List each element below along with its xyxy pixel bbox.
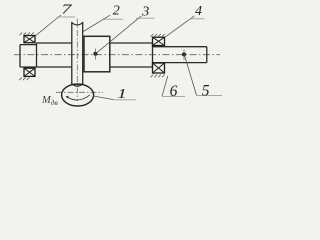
svg-text:1: 1 xyxy=(117,86,126,102)
output shaft end (right, element 5 area) xyxy=(153,47,207,63)
gear block (element 3) xyxy=(84,36,110,72)
shaft journal under left bearing xyxy=(20,45,37,67)
left bearing bottom box xyxy=(24,68,35,76)
left bearing bottom box X xyxy=(24,68,35,76)
leader line of label 2 xyxy=(83,15,110,31)
force application dot on output shaft xyxy=(182,52,186,56)
torque arrowhead xyxy=(66,96,69,99)
shaft section between gear and right bearing xyxy=(110,43,153,67)
right bearing lower support hatching xyxy=(151,75,165,78)
svg-text:4: 4 xyxy=(195,4,202,19)
label shelf under 1 xyxy=(114,99,137,101)
right bearing upper support hatching xyxy=(151,34,165,37)
horizontal centerline of wheel ellipse xyxy=(56,91,103,93)
label shelf under 2 xyxy=(104,18,123,20)
svg-text:7: 7 xyxy=(61,1,73,17)
left bearing (element 7) top box xyxy=(24,36,35,43)
leader line of label 5 xyxy=(185,55,197,95)
torque arrow arc inside wheel xyxy=(66,95,90,100)
right bearing (element 4) top box xyxy=(153,37,165,45)
leader line of label 4 xyxy=(165,16,195,38)
shaft shoulder section (left, to pulley) xyxy=(37,43,72,68)
pulley bottom rim arc xyxy=(71,83,83,86)
leader line of label 6 xyxy=(162,76,168,97)
main shaft centerline (dash-dot axis) xyxy=(14,54,220,56)
force application dot on gear centre xyxy=(93,52,97,56)
pulley top rim arc xyxy=(71,22,83,25)
short vertical tick through gear dot xyxy=(94,49,96,60)
svg-text:3: 3 xyxy=(141,5,149,20)
left bearing lower support hatching xyxy=(19,77,29,80)
right bearing top box X xyxy=(153,37,165,45)
label shelf under 6 xyxy=(162,95,185,97)
wheel / handwheel ellipse (element 1) xyxy=(62,84,94,106)
pulley (edge view, element 2) left line xyxy=(71,23,73,84)
label shelf under 5 xyxy=(197,94,223,96)
svg-text:6: 6 xyxy=(170,83,178,100)
right bearing bottom box X xyxy=(153,63,165,73)
pulley right line xyxy=(82,23,84,84)
left bearing upper support hatching xyxy=(20,32,34,35)
label shelf under 7 xyxy=(57,16,75,18)
leader line of label 3 xyxy=(96,16,141,53)
right bearing bottom box (element 6) xyxy=(153,63,165,73)
left bearing top box X xyxy=(24,36,35,43)
leader line of label 7 xyxy=(36,15,61,35)
label shelf under 3 xyxy=(136,17,155,19)
label shelf under 4 xyxy=(190,18,205,20)
short vertical tick through shaft dot xyxy=(183,50,185,61)
leader line of label 1 xyxy=(94,96,114,100)
svg-text:5: 5 xyxy=(202,83,210,100)
vertical centerline through pulley and wheel ellipse xyxy=(76,19,78,102)
svg-text:2: 2 xyxy=(113,4,120,19)
